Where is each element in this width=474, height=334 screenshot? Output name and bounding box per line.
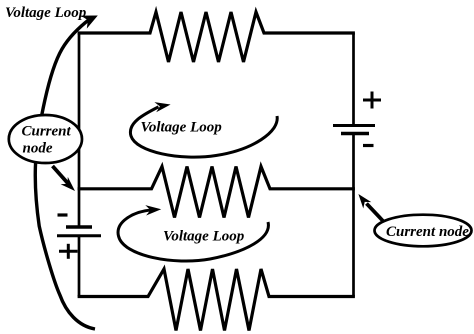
svg-text:node: node xyxy=(23,141,53,157)
svg-text:Voltage Loop: Voltage Loop xyxy=(163,229,245,245)
label: + sign of battery B2 xyxy=(59,244,78,259)
battery B1 (right) short negative plate xyxy=(341,132,369,135)
battery B2 (left) long positive plate xyxy=(57,234,101,237)
annotation: lower inner voltage-loop elliptical arrow xyxy=(118,210,268,261)
battery B1 (right) long positive plate xyxy=(333,124,375,127)
arrowhead of upper voltage-loop arrow xyxy=(154,102,170,112)
label: - sign of battery B1 xyxy=(363,144,374,147)
wire: top horizontal with resistor R1 xyxy=(78,12,355,62)
node: left current node ellipse xyxy=(9,115,82,163)
wire: middle horizontal with resistor R2 xyxy=(78,167,355,218)
label: - sign of battery B2 xyxy=(58,213,68,216)
wire: bottom horizontal with resistor R3 xyxy=(78,269,355,331)
annotation: arrow from left current node to middle-wire junction xyxy=(53,166,69,184)
svg-text:Current node: Current node xyxy=(386,224,469,240)
svg-text:Voltage Loop: Voltage Loop xyxy=(141,120,223,136)
battery B2 (left) short negative plate xyxy=(66,225,92,228)
arrowhead of big outer voltage-loop arrow xyxy=(81,16,98,29)
label: + sign of battery B1 xyxy=(363,92,381,109)
annotation: upper inner voltage-loop elliptical arrow xyxy=(130,107,277,157)
wire: right vertical lower segment xyxy=(352,134,355,297)
annotation: big outer voltage-loop curved arrow (left side) xyxy=(35,19,95,330)
node: right current node ellipse xyxy=(375,215,472,247)
wire: left vertical lower segment xyxy=(78,236,81,297)
svg-text:Current: Current xyxy=(22,124,72,140)
wire: left vertical upper segment xyxy=(78,33,81,227)
annotation: arrow from right current node to middle-wire junction xyxy=(367,204,384,222)
wire: right vertical upper segment xyxy=(352,33,355,126)
svg-text:Voltage Loop: Voltage Loop xyxy=(5,5,87,21)
arrowhead of lower voltage-loop arrow xyxy=(145,205,161,215)
